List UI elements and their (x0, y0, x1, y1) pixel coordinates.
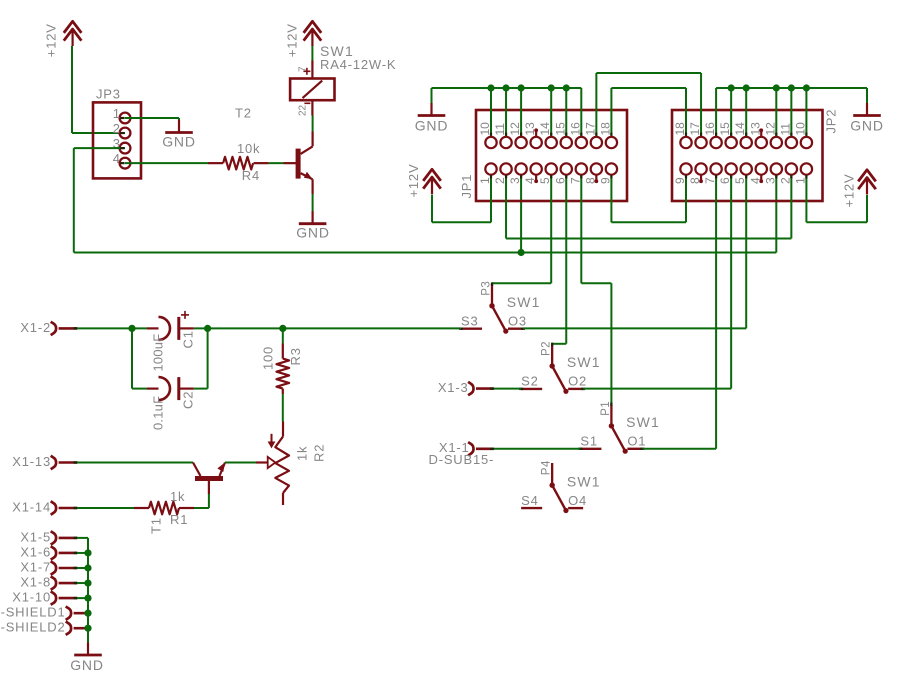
svg-text:22: 22 (298, 104, 309, 116)
svg-text:100uF: 100uF (150, 334, 165, 372)
wire relay to T2 collector (312, 116, 314, 132)
pin X1-7 (20, 560, 77, 575)
svg-text:X1-14: X1-14 (12, 500, 51, 515)
ground GND (T2 emitter) (296, 211, 330, 240)
ground GND (JP1 rail) (415, 103, 449, 134)
svg-text:P1: P1 (600, 401, 612, 416)
wire X1-5 to GND bus (77, 537, 88, 539)
wire X1-3 to S2 (494, 388, 521, 390)
svg-text:GND: GND (296, 225, 330, 241)
svg-text:X1-2: X1-2 (20, 320, 51, 335)
svg-text:JP3: JP3 (96, 87, 121, 102)
svg-text:X1-13: X1-13 (12, 454, 51, 469)
wire JP1 GND rail (432, 84, 582, 136)
svg-text:SW1: SW1 (567, 473, 601, 489)
resistor R1 1k (134, 489, 194, 527)
relay SW1 RA4-12W-K coil (290, 43, 396, 116)
wire T2 emitter to GND (312, 194, 314, 212)
wire JP3 pin 4 to R4 (125, 162, 208, 164)
svg-text:+12V: +12V (406, 164, 421, 198)
svg-text:S3: S3 (461, 314, 479, 329)
wire T1 base (194, 494, 209, 508)
resistor R3 100 (261, 344, 304, 395)
svg-text:S4: S4 (521, 493, 539, 508)
wire JP1 pin 9 to JP2 pin 9 (611, 176, 686, 223)
resistor R4 10k (208, 141, 269, 183)
junction JP1 pin 3 on long net (518, 249, 525, 256)
connector JP3 (93, 87, 141, 179)
svg-text:D-SUB15-: D-SUB15- (429, 452, 495, 467)
svg-text:X1-SHIELD2: X1-SHIELD2 (0, 620, 66, 635)
wire R3 to R2 (282, 394, 284, 422)
svg-text:T2: T2 (235, 106, 252, 121)
junction C1 left (128, 325, 135, 332)
junction nubs at connector pins (120, 118, 806, 178)
pin X1-6 (20, 544, 77, 559)
pin X1-SHIELD2 (0, 620, 88, 635)
svg-text:1k: 1k (170, 489, 185, 504)
wire T1 emitter to R2 wiper (225, 462, 256, 464)
pin X1-2 (20, 320, 77, 335)
svg-text:O1: O1 (627, 434, 646, 449)
wire JP1 pin 6 to switch P2 (552, 176, 566, 344)
svg-text:RA4-12W-K: RA4-12W-K (320, 57, 396, 72)
svg-text:GND: GND (70, 657, 104, 673)
pin X1-13 (12, 454, 77, 469)
wire JP2 pin 1 to +12V (806, 176, 867, 223)
wire JP1 pin 3 tap (520, 176, 522, 253)
pin X1-1 (429, 440, 495, 467)
svg-text:GND: GND (162, 134, 196, 150)
wire JP3 pin 3 long net to JP2 pin 3 (74, 148, 777, 252)
svg-text:R3: R3 (288, 347, 303, 365)
switch SW1 O3 (459, 281, 541, 334)
transistor T1 (148, 463, 225, 535)
svg-text:+12V: +12V (842, 174, 857, 208)
wire R3 top (282, 328, 284, 343)
wire switch O3 to JP2 pin 5 (523, 176, 746, 329)
svg-text:2: 2 (113, 121, 120, 136)
svg-text:O2: O2 (568, 374, 587, 389)
svg-text:X1-5: X1-5 (20, 529, 51, 544)
svg-text:X1-7: X1-7 (20, 560, 51, 575)
wire X1-1 to S1 (494, 448, 580, 450)
junction R3 tap (279, 325, 286, 332)
svg-text:GND: GND (415, 118, 449, 134)
svg-text:C1: C1 (181, 330, 196, 348)
svg-text:+12V: +12V (285, 23, 300, 57)
svg-text:X1-6: X1-6 (20, 544, 51, 559)
potentiometer R2 1k (256, 422, 326, 506)
svg-text:SW1: SW1 (567, 354, 601, 370)
svg-text:T1: T1 (148, 517, 163, 534)
svg-text:10k: 10k (237, 141, 260, 156)
wire +12V to JP3 pin 2 (72, 46, 125, 133)
wire switch O2 to JP2 pin 6 (583, 176, 731, 389)
wire JP1 pin 7 to switch P1 (581, 176, 611, 404)
svg-text:R4: R4 (242, 168, 260, 183)
pin X1-SHIELD1 (0, 605, 88, 620)
wire X1-14 to R1 (77, 507, 134, 509)
svg-text:R2: R2 (311, 444, 326, 462)
switch SW1 O1 (578, 401, 660, 454)
transistor T2 (235, 106, 313, 195)
pin X1-14 (12, 500, 77, 515)
wire JP1 pin 17 to JP2 pin 17 (596, 73, 701, 136)
ground GND (JP3) (162, 120, 196, 150)
svg-text:+12V: +12V (44, 23, 59, 57)
svg-text:C2: C2 (181, 391, 196, 409)
capacitor C2 0.1uF (147, 377, 196, 430)
svg-text:X1-8: X1-8 (20, 575, 51, 590)
ground GND (bottom left) (70, 643, 104, 674)
svg-text:X1-10: X1-10 (12, 590, 51, 605)
power +12V supply (top left) (44, 21, 82, 57)
wire switch O1 to JP2 pin 7 (643, 176, 717, 449)
ground GND (JP2 rail) (850, 103, 884, 134)
svg-text:X1-3: X1-3 (438, 380, 469, 395)
wire R4 to T2 base (269, 162, 284, 164)
wire JP1 pin 5 to switch P3 (492, 176, 551, 284)
power +12V supply (relay) (285, 21, 322, 57)
svg-text:JP1: JP1 (459, 174, 474, 199)
wire X1-7 to GND bus (77, 567, 88, 569)
svg-text:4: 4 (113, 151, 120, 166)
svg-text:P4: P4 (541, 460, 553, 475)
capacitor C1 100uF (147, 311, 196, 372)
connector JP1 (459, 110, 627, 201)
connector JP2 (672, 109, 838, 201)
wire X1-10 to GND bus (77, 597, 88, 599)
svg-text:P3: P3 (481, 281, 493, 296)
svg-text:JP2: JP2 (823, 109, 838, 134)
pin X1-3 (438, 380, 494, 396)
wire JP2 GND rail (716, 84, 867, 136)
svg-text:GND: GND (850, 118, 884, 134)
wire X1-6 to GND bus (77, 552, 88, 554)
wire JP3 pin 1 to GND (125, 118, 179, 121)
pin X1-10 (12, 590, 77, 605)
svg-text:1k: 1k (295, 446, 310, 461)
wire JP1 pin 2 to JP2 pin 2 (506, 176, 791, 239)
svg-text:O4: O4 (568, 493, 587, 508)
pin X1-8 (20, 575, 77, 590)
svg-text:SW1: SW1 (507, 294, 541, 310)
wire +12V to relay coil (311, 46, 313, 61)
switch SW1 O4 (521, 460, 601, 513)
wire JP1 pin 18 to JP2 pin 18 (611, 88, 686, 136)
switch SW1 O2 (519, 341, 601, 394)
svg-text:S2: S2 (521, 374, 539, 389)
wire JP1 pin 1 to +12V (432, 176, 491, 223)
wire GND bus (bottom left) (84, 538, 91, 643)
wire X1-8 to GND bus (77, 582, 88, 584)
wire X1-13 to T1 collector (77, 462, 193, 464)
wire X1-2 net (77, 327, 461, 329)
power +12V supply (left of JP1) (406, 164, 441, 198)
svg-text:S1: S1 (580, 434, 598, 449)
svg-text:P2: P2 (541, 341, 553, 356)
svg-text:1: 1 (113, 106, 120, 121)
svg-text:0.1uF: 0.1uF (150, 396, 165, 430)
svg-text:X1-SHIELD1: X1-SHIELD1 (0, 605, 66, 620)
pin X1-5 (20, 529, 77, 544)
svg-text:100: 100 (261, 346, 276, 370)
junction C1 right (204, 325, 211, 332)
svg-text:O3: O3 (508, 314, 527, 329)
svg-text:R1: R1 (170, 512, 188, 527)
power +12V supply (right of JP2) (842, 170, 876, 208)
wire C2 branch (132, 328, 208, 388)
svg-text:SW1: SW1 (626, 414, 660, 430)
